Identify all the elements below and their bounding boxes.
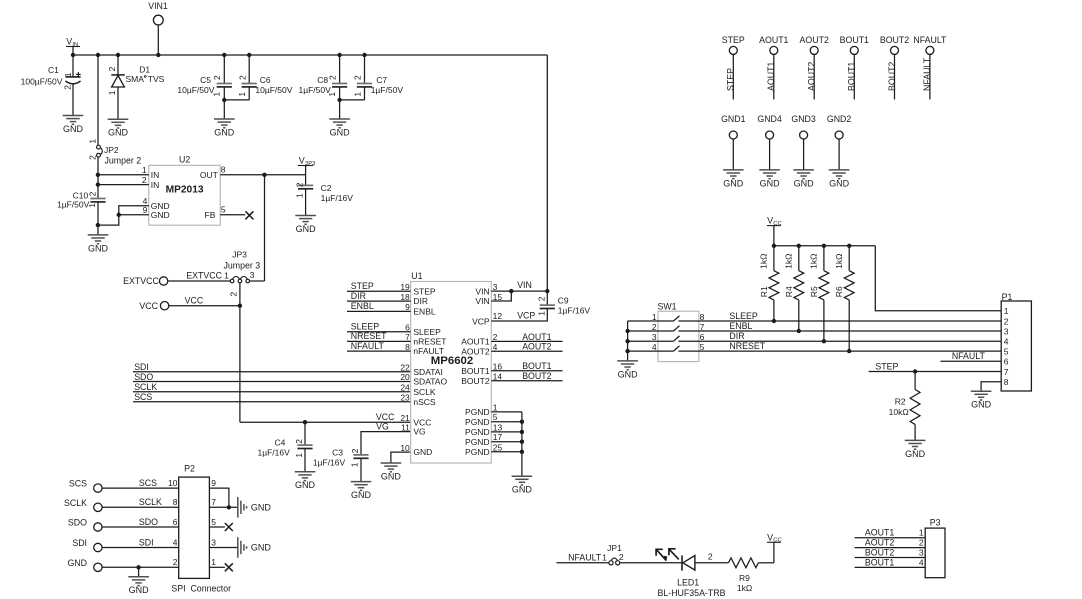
svg-text:2: 2	[537, 296, 547, 301]
svg-text:NFAULT: NFAULT	[568, 552, 602, 562]
svg-text:4: 4	[493, 342, 498, 352]
svg-text:GND: GND	[129, 585, 150, 595]
svg-text:1: 1	[224, 271, 229, 281]
svg-text:GND: GND	[295, 480, 316, 490]
svg-text:GND: GND	[151, 210, 170, 220]
svg-text:1: 1	[1004, 306, 1009, 316]
svg-text:1: 1	[350, 462, 360, 467]
svg-text:GND: GND	[108, 128, 129, 138]
svg-text:SLEEP: SLEEP	[729, 311, 757, 321]
svg-text:BOUT2: BOUT2	[880, 35, 909, 45]
svg-text:24: 24	[400, 382, 410, 392]
svg-text:GND: GND	[971, 400, 992, 410]
svg-text:2: 2	[107, 66, 117, 71]
svg-text:VG: VG	[376, 421, 389, 431]
svg-text:V: V	[66, 37, 72, 47]
svg-text:Jumper 3: Jumper 3	[223, 261, 260, 271]
svg-text:STEP: STEP	[875, 361, 898, 371]
svg-text:3: 3	[919, 548, 924, 558]
svg-text:GND2: GND2	[827, 114, 852, 124]
svg-text:1kΩ: 1kΩ	[759, 254, 769, 269]
svg-text:C3: C3	[332, 447, 343, 457]
svg-text:22: 22	[400, 362, 410, 372]
svg-text:4: 4	[652, 342, 657, 352]
svg-text:FB: FB	[205, 210, 216, 220]
svg-text:EXTVCC: EXTVCC	[123, 276, 159, 286]
svg-text:SDO: SDO	[68, 518, 87, 528]
svg-text:GND: GND	[723, 178, 744, 188]
svg-text:10µF/50V: 10µF/50V	[177, 85, 214, 95]
svg-text:JP3: JP3	[232, 250, 247, 260]
svg-text:PGND: PGND	[465, 427, 490, 437]
svg-text:STEP: STEP	[722, 35, 745, 45]
svg-text:1: 1	[919, 528, 924, 538]
svg-text:SLEEP: SLEEP	[413, 327, 441, 337]
svg-text:NFAULT: NFAULT	[922, 57, 932, 91]
svg-text:2: 2	[708, 551, 713, 561]
svg-text:VCP: VCP	[517, 311, 535, 321]
svg-text:15: 15	[493, 292, 503, 302]
svg-text:12: 12	[493, 311, 503, 321]
svg-text:NRESET: NRESET	[351, 331, 387, 341]
svg-text:C5: C5	[200, 75, 211, 85]
svg-text:R4: R4	[784, 286, 794, 297]
svg-text:BOUT2: BOUT2	[865, 548, 894, 558]
svg-text:GND: GND	[88, 243, 109, 253]
svg-text:NFAULT: NFAULT	[952, 351, 986, 361]
svg-text:9: 9	[211, 478, 216, 488]
svg-text:SCLK: SCLK	[139, 497, 162, 507]
svg-text:PGND: PGND	[465, 417, 490, 427]
svg-text:BOUT1: BOUT1	[461, 366, 490, 376]
svg-text:9: 9	[143, 205, 148, 215]
svg-text:18: 18	[400, 292, 410, 302]
svg-text:BOUT2: BOUT2	[522, 371, 551, 381]
svg-text:4: 4	[173, 537, 178, 547]
svg-text:1µF/16V: 1µF/16V	[257, 447, 290, 457]
svg-text:R9: R9	[739, 573, 750, 583]
svg-text:6: 6	[1004, 357, 1009, 367]
svg-text:BOUT1: BOUT1	[865, 557, 894, 567]
svg-text:AOUT2: AOUT2	[800, 35, 829, 45]
svg-text:17: 17	[493, 432, 503, 442]
svg-text:V: V	[299, 156, 305, 166]
svg-text:25: 25	[493, 442, 503, 452]
svg-text:1: 1	[602, 553, 607, 563]
svg-text:3: 3	[1004, 327, 1009, 337]
svg-text:GND: GND	[794, 178, 815, 188]
svg-text:PGND: PGND	[465, 437, 490, 447]
svg-text:2: 2	[350, 448, 360, 453]
svg-text:SCS: SCS	[69, 479, 87, 489]
svg-text:11: 11	[401, 422, 410, 432]
svg-text:5: 5	[1004, 346, 1009, 356]
svg-text:C9: C9	[558, 295, 569, 305]
svg-text:VIN: VIN	[517, 280, 532, 290]
svg-text:2: 2	[294, 439, 304, 444]
svg-text:VIN: VIN	[475, 286, 489, 296]
svg-text:NFAULT: NFAULT	[913, 35, 947, 45]
svg-text:1: 1	[493, 402, 498, 412]
svg-text:AOUT1: AOUT1	[461, 337, 490, 347]
svg-text:5: 5	[493, 412, 498, 422]
svg-text:STEP: STEP	[351, 281, 374, 291]
svg-text:GND1: GND1	[721, 114, 746, 124]
svg-text:GND: GND	[330, 127, 351, 137]
svg-text:AOUT1: AOUT1	[766, 62, 776, 91]
svg-text:1µF/16V: 1µF/16V	[558, 306, 591, 316]
svg-text:100µF/50V: 100µF/50V	[21, 76, 63, 86]
svg-text:DIR: DIR	[729, 331, 744, 341]
svg-text:PGND: PGND	[465, 407, 490, 417]
svg-text:SLEEP: SLEEP	[351, 321, 379, 331]
svg-text:4: 4	[1004, 337, 1009, 347]
svg-text:nFAULT: nFAULT	[413, 346, 444, 356]
svg-text:SCLK: SCLK	[64, 498, 87, 508]
svg-text:C6: C6	[260, 75, 271, 85]
svg-text:GND: GND	[413, 447, 432, 457]
svg-text:GND: GND	[760, 178, 781, 188]
svg-text:SMA: SMA	[126, 74, 145, 84]
svg-text:STEP: STEP	[413, 286, 436, 296]
svg-text:DIR: DIR	[413, 296, 428, 306]
svg-text:MP2013: MP2013	[166, 184, 204, 195]
svg-text:10µF/50V: 10µF/50V	[255, 85, 292, 95]
svg-text:ENBL: ENBL	[413, 307, 435, 317]
svg-text:8: 8	[700, 312, 705, 322]
svg-text:GND: GND	[251, 502, 272, 512]
svg-text:NRESET: NRESET	[729, 341, 765, 351]
svg-text:2: 2	[229, 292, 239, 297]
svg-text:GND: GND	[67, 558, 87, 568]
svg-text:C1: C1	[48, 65, 59, 75]
svg-text:VCP: VCP	[472, 316, 490, 326]
svg-text:P3: P3	[930, 518, 941, 528]
svg-text:SCLK: SCLK	[134, 382, 157, 392]
svg-text:1: 1	[211, 92, 221, 97]
svg-text:nRESET: nRESET	[413, 337, 446, 347]
svg-text:1: 1	[352, 92, 362, 97]
svg-text:GND: GND	[618, 369, 639, 379]
svg-text:4: 4	[919, 557, 924, 567]
svg-text:IN: IN	[151, 180, 160, 190]
svg-text:1kΩ: 1kΩ	[737, 583, 752, 593]
svg-text:STEP: STEP	[726, 68, 736, 91]
svg-text:5: 5	[211, 517, 216, 527]
svg-text:10kΩ: 10kΩ	[889, 407, 909, 417]
svg-text:BOUT1: BOUT1	[840, 35, 869, 45]
svg-text:C7: C7	[376, 75, 387, 85]
svg-text:GND: GND	[512, 485, 533, 495]
svg-text:2: 2	[353, 75, 363, 80]
svg-text:D1: D1	[139, 64, 150, 74]
svg-text:SDI: SDI	[72, 538, 87, 548]
svg-text:GND: GND	[63, 124, 84, 134]
svg-text:6: 6	[405, 322, 410, 332]
svg-text:7: 7	[405, 332, 410, 342]
svg-text:2: 2	[237, 75, 247, 80]
svg-text:1: 1	[63, 72, 73, 77]
svg-text:2: 2	[295, 182, 305, 187]
svg-text:1kΩ: 1kΩ	[834, 254, 844, 269]
svg-text:BOUT2: BOUT2	[887, 62, 897, 91]
svg-text:1: 1	[237, 92, 247, 97]
svg-text:VIN: VIN	[475, 296, 489, 306]
svg-text:3: 3	[211, 537, 216, 547]
svg-text:P1: P1	[1002, 292, 1013, 302]
svg-text:16: 16	[493, 361, 503, 371]
svg-text:VCC: VCC	[185, 295, 204, 305]
svg-text:LED1: LED1	[677, 577, 699, 587]
svg-text:EXTVCC: EXTVCC	[186, 271, 222, 281]
svg-text:7: 7	[211, 497, 216, 507]
svg-text:U1: U1	[411, 271, 422, 281]
svg-text:GND: GND	[251, 543, 272, 553]
svg-text:9: 9	[405, 302, 410, 312]
svg-text:SDI: SDI	[134, 362, 149, 372]
svg-text:1µF/50V: 1µF/50V	[57, 200, 90, 210]
svg-text:5: 5	[221, 205, 226, 215]
svg-text:R6: R6	[834, 286, 844, 297]
svg-text:5: 5	[700, 342, 705, 352]
svg-text:TVS: TVS	[148, 74, 165, 84]
svg-text:AOUT2: AOUT2	[461, 346, 490, 356]
svg-text:3: 3	[250, 270, 255, 280]
svg-text:SCS: SCS	[139, 478, 157, 488]
svg-text:14: 14	[493, 371, 503, 381]
svg-text:BOUT2: BOUT2	[461, 376, 490, 386]
svg-text:nSCS: nSCS	[413, 397, 436, 407]
svg-text:1: 1	[87, 203, 97, 208]
svg-text:AOUT2: AOUT2	[807, 62, 817, 91]
svg-text:8: 8	[173, 497, 178, 507]
svg-text:IN: IN	[151, 170, 160, 180]
svg-text:1: 1	[211, 557, 216, 567]
svg-text:AOUT1: AOUT1	[522, 332, 551, 342]
svg-text:SDATAO: SDATAO	[413, 377, 447, 387]
svg-text:BL-HUF35A-TRB: BL-HUF35A-TRB	[658, 588, 726, 598]
svg-text:VIN1: VIN1	[148, 1, 168, 11]
svg-text:R2: R2	[895, 397, 906, 407]
svg-text:R1: R1	[759, 286, 769, 297]
svg-text:2: 2	[919, 538, 924, 548]
svg-text:2: 2	[88, 155, 98, 160]
svg-text:6: 6	[700, 332, 705, 342]
svg-text:BOUT1: BOUT1	[847, 62, 857, 91]
svg-text:1: 1	[536, 311, 546, 316]
svg-text:SCLK: SCLK	[413, 387, 436, 397]
svg-text:1kΩ: 1kΩ	[784, 254, 794, 269]
svg-text:GND: GND	[381, 471, 402, 481]
svg-text:1: 1	[142, 165, 147, 175]
svg-text:BOUT1: BOUT1	[522, 361, 551, 371]
svg-text:2: 2	[1004, 316, 1009, 326]
svg-text:SDO: SDO	[134, 372, 153, 382]
svg-text:AOUT1: AOUT1	[865, 528, 894, 538]
svg-text:ENBL: ENBL	[729, 321, 752, 331]
svg-text:AOUT2: AOUT2	[522, 342, 551, 352]
svg-text:AOUT2: AOUT2	[865, 538, 894, 548]
svg-text:1: 1	[327, 92, 337, 97]
svg-text:ENBL: ENBL	[351, 301, 374, 311]
svg-text:2: 2	[173, 557, 178, 567]
svg-text:1: 1	[652, 312, 657, 322]
svg-text:2: 2	[328, 75, 338, 80]
svg-text:3: 3	[652, 332, 657, 342]
svg-text:GND: GND	[905, 449, 926, 459]
svg-text:PGND: PGND	[465, 447, 490, 457]
svg-text:1: 1	[107, 90, 117, 95]
svg-text:U2: U2	[179, 155, 190, 165]
svg-text:C4: C4	[275, 438, 286, 448]
svg-text:GND: GND	[214, 127, 235, 137]
svg-text:OUT: OUT	[200, 170, 218, 180]
svg-text:19: 19	[400, 282, 410, 292]
svg-text:6: 6	[173, 517, 178, 527]
svg-text:1µF/16V: 1µF/16V	[313, 458, 346, 468]
svg-text:GND4: GND4	[757, 114, 782, 124]
svg-text:P2: P2	[184, 463, 195, 473]
svg-text:13: 13	[493, 422, 503, 432]
svg-text:GND3: GND3	[791, 114, 816, 124]
svg-text:SDATAI: SDATAI	[413, 367, 442, 377]
svg-text:SW1: SW1	[658, 302, 677, 312]
svg-text:2: 2	[212, 75, 222, 80]
svg-text:23: 23	[400, 392, 410, 402]
svg-text:V: V	[767, 216, 773, 226]
svg-text:GND: GND	[829, 178, 850, 188]
svg-text:8: 8	[405, 342, 410, 352]
svg-text:2: 2	[493, 332, 498, 342]
svg-text:2: 2	[652, 322, 657, 332]
svg-text:2: 2	[63, 85, 73, 90]
svg-text:SDI: SDI	[139, 537, 154, 547]
svg-text:Jumper 2: Jumper 2	[105, 155, 142, 165]
svg-text:1: 1	[88, 139, 98, 144]
svg-text:C2: C2	[321, 183, 332, 193]
svg-text:GND: GND	[351, 490, 372, 500]
svg-text:SCS: SCS	[134, 392, 152, 402]
svg-text:V: V	[767, 532, 773, 542]
svg-text:1µF/50V: 1µF/50V	[371, 85, 404, 95]
svg-text:7: 7	[700, 322, 705, 332]
svg-text:1µF/16V: 1µF/16V	[321, 193, 354, 203]
svg-text:2: 2	[87, 191, 97, 196]
svg-text:10: 10	[400, 443, 410, 453]
svg-text:1: 1	[294, 453, 304, 458]
svg-text:NFAULT: NFAULT	[351, 341, 385, 351]
svg-text:7: 7	[1004, 367, 1009, 377]
svg-text:R5: R5	[809, 286, 819, 297]
svg-text:GND: GND	[296, 224, 317, 234]
svg-text:2: 2	[142, 175, 147, 185]
svg-text:DIR: DIR	[351, 291, 366, 301]
svg-text:1: 1	[295, 193, 305, 198]
svg-text:2: 2	[619, 552, 624, 562]
svg-text:20: 20	[400, 372, 410, 382]
svg-text:VG: VG	[413, 427, 425, 437]
svg-text:SDO: SDO	[139, 517, 158, 527]
svg-text:JP2: JP2	[104, 145, 119, 155]
svg-text:VCC: VCC	[139, 301, 158, 311]
svg-text:SPI Connector: SPI Connector	[171, 583, 231, 593]
svg-text:1kΩ: 1kΩ	[809, 254, 819, 269]
svg-text:8: 8	[221, 165, 226, 175]
svg-text:10: 10	[168, 478, 178, 488]
svg-text:AOUT1: AOUT1	[759, 35, 788, 45]
svg-text:8: 8	[1004, 377, 1009, 387]
